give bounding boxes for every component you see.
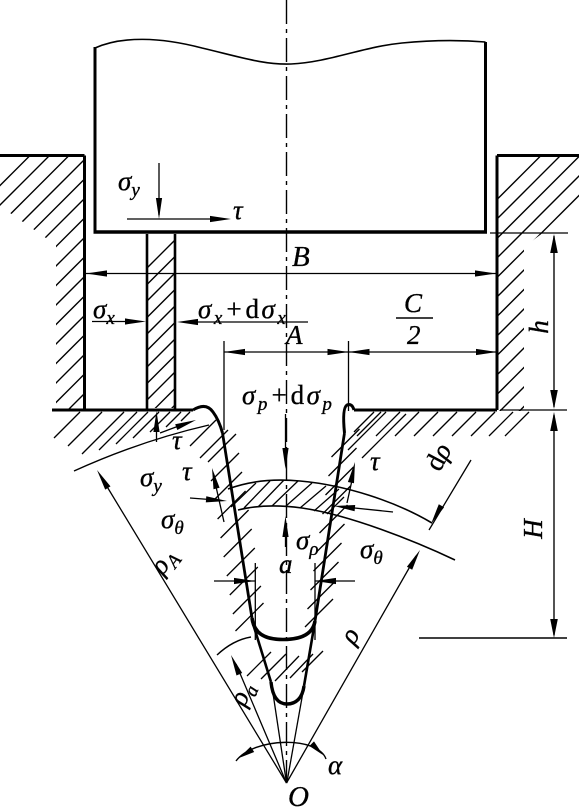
die left lip rounded edge: [193, 406, 223, 433]
extra hatch ticks at right lip corner: [354, 412, 374, 432]
upper arc of slab element (radius rho+drho): [228, 480, 432, 523]
svg-text:τ: τ: [233, 195, 244, 225]
svg-text:dρ: dρ: [419, 438, 458, 475]
stress sigma_y arrow on punch bottom: [158, 163, 160, 215]
svg-text:ρA: ρA: [143, 541, 187, 583]
hatching of spherical slab element: [231, 483, 256, 507]
radius rho line from apex with arrowhead at lower arc: [287, 556, 417, 783]
dimension C/2 line with arrows: [349, 351, 498, 353]
floor extension line right (thin): [500, 409, 567, 411]
dimension a extension lines: [254, 563, 256, 640]
hatch wedge under left floor: [54, 412, 80, 438]
hatch ticks along left channel wall: [208, 434, 236, 462]
svg-text:τ: τ: [370, 446, 381, 476]
die channel right wall (bold): [315, 433, 345, 621]
tau arrow along right wall with label: [347, 478, 353, 503]
dimension h vertical with arrows: [553, 236, 555, 407]
svg-text:σx: σx: [93, 294, 115, 329]
die right lip rounded edge: [344, 405, 354, 433]
extra hatch ticks at left lip corner: [190, 420, 216, 446]
svg-text:τ: τ: [172, 425, 183, 455]
centerline (vertical dash-dot axis): [286, 0, 288, 783]
dimension h extension line top: [490, 232, 568, 234]
radius rho_a arrow from apex: [236, 664, 287, 783]
svg-text:C: C: [404, 288, 423, 318]
svg-text:σθ: σθ: [360, 534, 383, 569]
hatch ticks between U1 and U2: [247, 652, 271, 676]
svg-text:2: 2: [407, 320, 421, 350]
svg-text:ρa: ρa: [222, 678, 263, 713]
thin converging lines below U2 to apex: [273, 690, 287, 783]
hatch ticks along right channel wall: [332, 429, 360, 457]
angle alpha arc with arrowheads: [236, 742, 326, 761]
svg-text:σy: σy: [140, 462, 162, 497]
bold arc - exit surface U1: [252, 618, 315, 640]
svg-text:a: a: [279, 549, 293, 579]
dimension a line with inward arrows: [214, 580, 255, 582]
svg-text:α: α: [328, 750, 343, 780]
die face floor line right: [354, 409, 497, 412]
svg-text:σρ: σρ: [296, 525, 318, 560]
sigma_rho upward arrow on centerline: [285, 528, 287, 547]
punch billet outline with wavy break line: [95, 39, 486, 64]
bold arc - lower end U2: [271, 682, 304, 704]
thin spherical arc at radius rho_a (left of U1): [217, 637, 251, 655]
radius rho_A line with arrowhead: [103, 480, 287, 783]
svg-text:σx+dσx: σx+dσx: [198, 294, 288, 329]
svg-text:B: B: [292, 241, 310, 273]
svg-text:τ: τ: [182, 456, 193, 486]
tau arrow at strip bottom (vertical) and along entry arc with label: [156, 423, 158, 442]
svg-text:σθ: σθ: [161, 504, 184, 539]
dimension A line with arrows: [224, 351, 349, 353]
svg-text:A: A: [284, 320, 303, 350]
die channel left wall (bold): [223, 433, 253, 618]
tau arrow along left wall with label: [215, 480, 225, 522]
tau arrow (top horizontal): [127, 218, 215, 220]
entry spherical surface arc (radius rho_A): [74, 425, 209, 471]
container right wall section (hatched): [497, 154, 579, 157]
container left wall section (hatched): [0, 154, 85, 157]
svg-text:σy: σy: [118, 166, 140, 201]
svg-text:h: h: [524, 320, 554, 334]
svg-text:ρ: ρ: [333, 622, 366, 650]
sigma_theta left arrow and label: [190, 498, 216, 500]
svg-text:H: H: [518, 518, 548, 540]
hatch band under right floor: [357, 412, 381, 436]
d-rho dimension segment with arrowhead at upper arc: [429, 460, 471, 530]
vertical slab element strip (hatched): [146, 234, 149, 409]
dimension A extension lines: [223, 341, 225, 430]
lower arc of slab element (radius rho): [238, 506, 455, 560]
dimension H bottom extension line: [419, 637, 567, 639]
svg-text:σp+dσp: σp+dσp: [242, 380, 334, 415]
sigma_theta right arrow and label: [345, 507, 393, 512]
die face floor line left: [52, 409, 193, 412]
dimension H vertical with arrows: [553, 415, 555, 635]
dimension B line with arrows: [86, 273, 496, 275]
svg-text:O: O: [288, 781, 309, 811]
